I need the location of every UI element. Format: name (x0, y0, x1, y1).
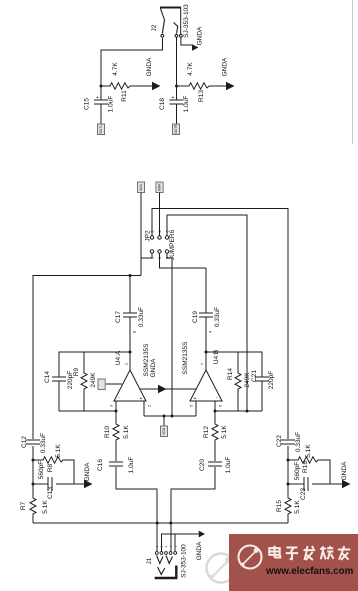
net flag OUTL below C15 (97, 124, 104, 135)
svg-text:C13: C13 (47, 487, 54, 499)
svg-text:+: + (194, 396, 197, 402)
wire R13 to GNDA (209, 85, 226, 87)
svg-text:3: 3 (109, 404, 114, 407)
svg-text:220pF: 220pF (268, 371, 275, 389)
junction node B (175, 85, 178, 88)
capacitor C18 1.0uF plates (170, 100, 184, 104)
svg-text:SSM2135S: SSM2135S (143, 343, 150, 377)
resistor R11 4.7K (108, 83, 130, 89)
wire C16 down to J1 tip column (116, 467, 157, 551)
capacitor C15 1.0uF plates (94, 100, 108, 104)
watermark logo circle (239, 546, 262, 569)
wire R12 to C20 (214, 442, 216, 461)
junction J1 tip rail (156, 522, 159, 525)
wire bias flag tap (163, 416, 165, 426)
net flag AINL (137, 182, 144, 193)
junction R16 node (287, 459, 290, 462)
capacitor C19 0.33uF plates (199, 313, 213, 317)
faint right edge line (352, 0, 354, 144)
svg-text:3: 3 (164, 545, 168, 547)
svg-text:R14: R14 (227, 368, 234, 380)
wire R9 branch (83, 352, 85, 411)
capacitor C20 1.0uF plates (208, 462, 222, 466)
wire U4:B output to apex (205, 352, 207, 370)
wire R11 to GNDA (130, 85, 152, 87)
net flag VCM bias (160, 426, 167, 437)
svg-text:GNDA: GNDA (222, 57, 229, 76)
resistor R7 5.1K (30, 496, 36, 516)
junction C23 node (287, 483, 290, 486)
svg-text:GNDA: GNDA (84, 462, 91, 481)
svg-text:GNDA: GNDA (150, 358, 157, 377)
bias rail (144, 415, 196, 417)
ground GNDA arrow at C23 (342, 480, 351, 488)
wire C21 branch lower (261, 381, 263, 411)
junction U4:A inv (115, 410, 118, 413)
wire node A to R11 (101, 85, 108, 87)
svg-text:4.7K: 4.7K (112, 62, 119, 76)
svg-text:C21: C21 (251, 370, 258, 382)
svg-text:4: 4 (208, 330, 213, 333)
svg-text:2: 2 (147, 404, 152, 407)
svg-text:7: 7 (200, 362, 205, 365)
wire AINL rail horizontal (33, 276, 141, 440)
resistor R14 249K (235, 371, 241, 391)
jumper JP2 pin 4 (158, 236, 161, 239)
svg-text:5.1K: 5.1K (221, 425, 228, 439)
svg-text:C19: C19 (192, 311, 199, 323)
ground GNDA arrow at C13 (84, 480, 93, 488)
svg-text:J2: J2 (151, 24, 158, 31)
wire C13 branch (33, 483, 74, 485)
wire R8 branch (33, 460, 74, 484)
svg-text:AINR: AINR (158, 183, 162, 191)
wire R15 to input rail (287, 516, 289, 523)
svg-text:U4:B: U4:B (213, 350, 220, 364)
svg-text:R8: R8 (47, 463, 54, 472)
svg-text:5.1K: 5.1K (123, 425, 130, 439)
svg-text:R12: R12 (203, 426, 210, 438)
svg-text:C20: C20 (199, 459, 206, 471)
svg-text:249K: 249K (90, 372, 97, 388)
svg-text:6: 6 (218, 404, 223, 407)
connector J1 pin circles (155, 552, 176, 555)
svg-text:560pF: 560pF (38, 461, 45, 479)
wire C12 to node R8 (32, 446, 34, 484)
wire J1 gnda stub (162, 534, 199, 551)
faint gray watermark logo circle (207, 554, 236, 583)
junction AINL rail C17 (129, 274, 132, 277)
svg-text:5.1K: 5.1K (294, 500, 301, 514)
svg-text:SSM2135S: SSM2135S (182, 341, 189, 375)
wire J2 ring to node B (176, 38, 178, 87)
wire U4:A feedback top rail (59, 352, 130, 377)
wire JP2 pin 3 jog to C19 line (160, 253, 207, 268)
svg-text:R7: R7 (20, 501, 27, 510)
svg-text:SJ-353-103: SJ-353-103 (183, 4, 190, 38)
svg-text:1: 1 (124, 362, 129, 365)
wire U4:A output to apex (129, 352, 131, 370)
wire JP2 pin 6 to U4:B inverting node (167, 215, 247, 411)
connector J1 tip contact hook (157, 556, 163, 564)
svg-text:0.33uF: 0.33uF (214, 307, 221, 327)
capacitor C12 0.33uF plates (26, 440, 40, 444)
wire C19 line upper (205, 268, 207, 313)
svg-text:GNDA: GNDA (146, 57, 153, 76)
watermark red box (229, 534, 358, 591)
capacitor C22 0.33uF plates (281, 440, 295, 444)
junction J1 switch rail (169, 522, 172, 525)
svg-text:C16: C16 (97, 459, 104, 471)
wire flag AINL down (140, 192, 142, 276)
svg-text:5.1K: 5.1K (55, 444, 62, 458)
resistor R9 249K (81, 371, 87, 391)
wire U4:A inverting pin down (115, 401, 117, 422)
wire U4:A feedback bottom rail (59, 410, 116, 412)
svg-text:C23: C23 (300, 488, 307, 500)
junction jumper inv tap (246, 410, 249, 413)
wire U4:A plus pin to bias rail (143, 401, 145, 416)
svg-text:OUTR: OUTR (174, 124, 178, 134)
jumper JP2 pin 6 (165, 236, 168, 239)
op-amp U4:B (190, 370, 222, 401)
svg-text:+: + (172, 95, 175, 101)
svg-text:0.33uF: 0.33uF (295, 432, 302, 452)
junction bias jumper (171, 415, 174, 418)
wire JP2 pin 5 to bias rail (167, 253, 172, 416)
jumper JP2 pin 1 (150, 250, 153, 253)
svg-text:OUTL: OUTL (99, 125, 103, 134)
svg-text:GNDA: GNDA (341, 461, 348, 480)
wire C19 line lower to U4:B output (205, 317, 207, 352)
capacitor C23 560pF plates (304, 477, 308, 491)
svg-text:C12: C12 (21, 436, 28, 448)
svg-text:C14: C14 (44, 371, 51, 383)
wire node B to C18 (176, 86, 178, 100)
svg-text:www.elecfans.com: www.elecfans.com (265, 566, 354, 577)
wire R14 branch (237, 352, 239, 411)
op-amp U4:A (114, 370, 146, 401)
junction R8 node (32, 459, 35, 462)
jumper JP2 pin 5 (165, 250, 168, 253)
connector J2 tip contact (161, 9, 165, 34)
resistor R13 4.7K (187, 83, 209, 89)
ground GNDA arrow between op-amps (158, 385, 167, 393)
wire U4:B feedback top rail (206, 352, 262, 377)
wire stem of U4:A flag (106, 383, 122, 385)
wire node to R15 (287, 484, 289, 496)
wire R10 to C16 (115, 442, 117, 461)
wire C14 branch lower (58, 381, 60, 411)
wire flag AINR to JP2 pin 4 (159, 192, 161, 236)
connector J1 frame (155, 566, 178, 579)
svg-text:AINL: AINL (139, 183, 143, 190)
resistor R8 5.1K (41, 457, 63, 463)
junction U4:A output (129, 351, 132, 354)
wire C17 line upper (129, 276, 131, 314)
svg-text:8: 8 (132, 330, 137, 333)
wire R16 branch (288, 460, 330, 484)
svg-text:R15: R15 (276, 500, 283, 512)
wire JP2 pin 1 jog to AINL rail (141, 253, 152, 275)
svg-text:560pF: 560pF (294, 462, 301, 480)
connector J1 lower tip arm (158, 567, 165, 575)
ground GNDA arrow at R13 (226, 82, 235, 90)
resistor R10 5.1K (113, 422, 119, 442)
svg-text:5.1K: 5.1K (42, 500, 49, 514)
jumper JP2 pin 2 (150, 236, 153, 239)
capacitor C17 0.33uF plates (123, 313, 137, 317)
wire node A to C15 (100, 86, 102, 100)
svg-text:C17: C17 (115, 311, 122, 323)
svg-text:C18: C18 (159, 98, 166, 110)
wire node to R7 (32, 484, 34, 496)
wire C18 to flag OUTR (176, 104, 178, 124)
wire J2 tip to node A (101, 38, 162, 86)
wire C23 branch (288, 483, 330, 485)
svg-text:C15: C15 (84, 98, 91, 110)
capacitor C13 560pF plates (48, 477, 52, 491)
connector J2 sleeve wire to GNDA (181, 37, 192, 45)
svg-text:GNDA: GNDA (197, 26, 204, 45)
svg-text:GNDA: GNDA (196, 541, 203, 560)
svg-text:J1: J1 (146, 557, 153, 564)
svg-text:4.7K: 4.7K (187, 62, 194, 76)
connector J2 ring contact (174, 23, 178, 34)
svg-text:VCM: VCM (162, 427, 166, 434)
svg-text:1.0uF: 1.0uF (225, 457, 232, 474)
capacitor C16 1.0uF plates (109, 462, 123, 466)
junction U4:B output (205, 351, 208, 354)
resistor R12 5.1K (212, 422, 218, 442)
ground GNDA arrow at J2 (192, 44, 199, 50)
wire U4:B plus pin (195, 401, 197, 416)
connector J2 sleeve bar (180, 8, 182, 35)
watermark chinese text 电子发烧友 as paths (269, 546, 350, 560)
jumper JP2 pin 3 (158, 250, 161, 253)
wire gnda between amps (140, 388, 196, 390)
ground GNDA arrow at J1 (199, 531, 205, 538)
svg-text:R11: R11 (121, 90, 128, 102)
input rail along bottom (33, 522, 288, 524)
svg-text:1.0uF: 1.0uF (183, 96, 190, 113)
svg-text:+: + (140, 396, 143, 402)
svg-text:249K: 249K (244, 372, 251, 388)
net flag AINR (156, 182, 163, 193)
resistor R15 5.1K (285, 496, 291, 516)
wire U4:B inverting pin down (214, 401, 216, 422)
wire JP2 pin 2 up and right rail to C22 line (152, 209, 288, 440)
wire C20 down to J1 switch column (171, 467, 215, 551)
connector J2 frame (160, 7, 181, 9)
svg-text:R9: R9 (73, 367, 80, 376)
junction C13 node (32, 483, 35, 486)
svg-text:JUMPER6: JUMPER6 (169, 229, 176, 260)
svg-text:R10: R10 (104, 426, 111, 438)
wire U4:B feedback bottom rail (215, 410, 262, 412)
svg-text:5: 5 (189, 404, 194, 407)
wire C15 to flag OUTL (100, 104, 102, 124)
capacitor C14 220pF plates (52, 377, 66, 381)
svg-text:R16: R16 (302, 461, 309, 473)
svg-text:0.33uF: 0.33uF (138, 307, 145, 327)
connector J1 switch contact hook (166, 556, 172, 564)
resistor R16 5.1K (296, 457, 318, 463)
svg-text:5.1K: 5.1K (305, 444, 312, 458)
svg-text:C22: C22 (276, 435, 283, 447)
svg-text:U4:A: U4:A (115, 350, 122, 365)
wire C23 R16 to GNDA (330, 483, 342, 485)
junction bias tap (163, 415, 166, 418)
wire C17 line lower to U4:A output (129, 317, 131, 352)
wire C22 to node R16 (287, 446, 289, 484)
svg-text:SJ-353-100: SJ-353-100 (181, 544, 188, 578)
wire C13 R8 to GNDA (74, 483, 84, 485)
ground GNDA arrow at R11 (152, 82, 161, 90)
junction node A (100, 85, 103, 88)
wire R7 to input rail (32, 516, 34, 523)
svg-text:1.0uF: 1.0uF (108, 96, 115, 113)
svg-text:0.33uF: 0.33uF (40, 433, 47, 453)
net flag OUTR below C18 (172, 124, 179, 135)
capacitor C21 220pF plates (255, 377, 269, 381)
svg-text:+: + (96, 95, 99, 101)
svg-text:1.0uF: 1.0uF (128, 457, 135, 474)
junction U4:B inv (214, 410, 217, 413)
wire node B to R13 (177, 85, 188, 87)
svg-text:R13: R13 (198, 90, 205, 102)
net flag at U4:A inverting input (98, 379, 105, 390)
